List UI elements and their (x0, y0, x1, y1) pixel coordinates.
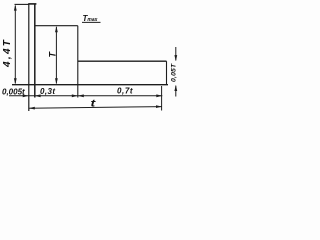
svg-text:4,4T: 4,4T (2, 38, 13, 68)
wire: pulse top cap (28, 3, 36, 5)
wire: pulse left vertical edge (28, 4, 30, 111)
svg-text:0,005t: 0,005t (2, 88, 25, 97)
node: dimension 0,05T upper arrow (174, 47, 177, 61)
node: dimension 4,4T vertical line with arrows (14, 5, 17, 85)
wire: overall period t dimension line (29, 105, 162, 109)
wire: chained dimension line 0,005t / 0,3t / 0,7t (9, 95, 162, 97)
svg-text:0,7t: 0,7t (117, 86, 133, 95)
wire: pulse right vertical edge (34, 4, 36, 98)
wire: final drop at end of period (166, 61, 168, 84)
node: dimension T vertical line with arrows (55, 26, 58, 84)
wire: plateau level T line (35, 25, 78, 27)
wire: top extension line from dimension to pulse (15, 3, 29, 5)
node: arrowheads of chained dimension (23, 94, 163, 97)
svg-text:0,05T: 0,05T (170, 63, 177, 82)
svg-text:0,3t: 0,3t (40, 87, 55, 96)
wire: baseline zero level (12, 84, 168, 86)
node: label Tmax with underline (82, 14, 101, 23)
wire: shallow 0,05T level line (78, 60, 167, 62)
wire: right extension line for t dimension (161, 86, 163, 111)
node: dimension 0,05T lower arrow (174, 85, 177, 97)
wire: falling edge of plateau (77, 26, 79, 98)
